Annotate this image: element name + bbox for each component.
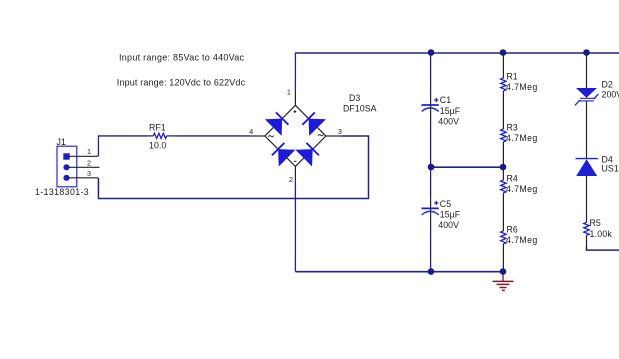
wire bridge pin2 down bbox=[294, 181, 296, 271]
svg-text:R3: R3 bbox=[507, 123, 518, 133]
bridge diode top-left bbox=[265, 112, 289, 136]
svg-text:D3: D3 bbox=[349, 93, 360, 103]
C column wire C1 to middle rail bbox=[430, 122, 432, 167]
svg-text:1.00k: 1.00k bbox=[590, 229, 613, 239]
resistor R5 bbox=[584, 218, 613, 239]
wire bridge pin1 to top rail bbox=[294, 53, 296, 91]
J1 pin 2 number bbox=[87, 158, 91, 167]
svg-text:Input range: 85Vac to 440Vac: Input range: 85Vac to 440Vac bbox=[119, 53, 245, 63]
svg-text:R5: R5 bbox=[590, 218, 601, 228]
capacitor C1 pin leads bbox=[430, 95, 432, 122]
svg-text:3: 3 bbox=[87, 169, 91, 178]
resistor R3 bbox=[501, 123, 538, 144]
D column lead D4 to R5 bbox=[586, 176, 588, 222]
bridge D3 pin 3 lead bbox=[326, 135, 341, 137]
svg-text:15µF: 15µF bbox=[440, 210, 461, 220]
capacitor C5 pin leads bbox=[430, 198, 432, 225]
junction dot middle rail R column bbox=[500, 164, 507, 171]
middle rail wire bbox=[431, 166, 503, 168]
svg-text:C5: C5 bbox=[440, 199, 451, 209]
junction dot middle rail C column bbox=[428, 164, 435, 171]
svg-text:4.7Meg: 4.7Meg bbox=[506, 235, 538, 245]
zener diode D2 bbox=[575, 79, 619, 105]
junction dot top rail R column bbox=[500, 49, 507, 56]
ground symbol bbox=[493, 272, 514, 291]
svg-text:2: 2 bbox=[289, 175, 293, 184]
R column lead R4-R6 bbox=[502, 193, 504, 231]
C column wire top bbox=[430, 53, 432, 95]
svg-text:1-1318301-3: 1-1318301-3 bbox=[35, 187, 89, 197]
svg-text:200V: 200V bbox=[602, 89, 619, 99]
svg-text:2: 2 bbox=[87, 158, 91, 167]
J1 pin 1 number bbox=[87, 147, 91, 156]
top rail wire bbox=[295, 52, 619, 54]
svg-text:C1: C1 bbox=[440, 95, 451, 105]
bridge diode top-right bbox=[302, 112, 326, 136]
svg-text:10.0: 10.0 bbox=[149, 141, 166, 151]
bridge rectifier D3 body bbox=[265, 105, 326, 166]
bridge D3 pin 1 lead bbox=[294, 91, 296, 106]
svg-text:1: 1 bbox=[287, 87, 291, 96]
resistor R1 bbox=[501, 72, 538, 93]
R column lead R1-R3 bbox=[502, 91, 504, 129]
junction dot bottom rail C column bbox=[428, 268, 435, 275]
svg-text:4.7Meg: 4.7Meg bbox=[506, 133, 538, 143]
capacitor C1 bbox=[422, 95, 461, 126]
R5 lead to corner bbox=[586, 235, 588, 246]
svg-text:R1: R1 bbox=[507, 72, 518, 82]
C column wire middle to C5 bbox=[430, 167, 432, 198]
resistor R6 bbox=[501, 225, 538, 246]
capacitor C5 bbox=[422, 199, 461, 230]
junction dot top rail D column bbox=[583, 49, 590, 56]
R column lead top bbox=[502, 53, 504, 78]
bridge D3 pin 1 number bbox=[287, 87, 291, 96]
wire J1 to RF1 bbox=[98, 135, 147, 137]
note input range line 1 bbox=[119, 53, 245, 63]
svg-text:R6: R6 bbox=[507, 225, 518, 235]
bridge D3 pin 3 number bbox=[338, 127, 342, 136]
svg-text:US1M: US1M bbox=[602, 163, 619, 173]
diode D4 bbox=[576, 154, 619, 176]
resistor RF1 bbox=[147, 123, 175, 151]
J1 pin 1 lead bbox=[67, 155, 98, 157]
junction dot bottom rail R column ground bbox=[500, 268, 507, 275]
D column lead D2 to D4 bbox=[586, 101, 588, 159]
svg-text:4.7Meg: 4.7Meg bbox=[506, 82, 538, 92]
resistor R4 bbox=[501, 174, 538, 195]
svg-text:400V: 400V bbox=[438, 220, 459, 230]
junction dot top rail C column bbox=[428, 49, 435, 56]
bridge D3 pin 2 lead bbox=[294, 166, 296, 181]
bridge diode bottom-left bbox=[272, 143, 296, 167]
bridge D3 designator bbox=[343, 93, 377, 113]
svg-text:J1: J1 bbox=[57, 137, 66, 147]
svg-text:DF10SA: DF10SA bbox=[343, 103, 377, 113]
wire R5 to right edge bbox=[587, 246, 619, 250]
J1 pin 2 lead stub bbox=[67, 166, 100, 168]
note input range line 2 bbox=[117, 78, 246, 88]
bottom rail wire bbox=[295, 271, 503, 273]
J1 pin 3 number bbox=[87, 169, 91, 178]
svg-text:4: 4 bbox=[249, 127, 253, 136]
svg-text:R4: R4 bbox=[507, 174, 518, 184]
J1 pin 3 lead bbox=[67, 177, 98, 179]
R column lead R6 to bottom rail bbox=[502, 244, 504, 272]
wire J1 pin1 up bbox=[97, 136, 99, 156]
wire J1 pin3 down and right (bottom loop) bbox=[98, 136, 368, 199]
svg-text:1: 1 bbox=[87, 147, 91, 156]
C column wire C5 to bottom rail bbox=[430, 225, 432, 272]
R column lead R3 to middle rail bbox=[502, 142, 504, 167]
svg-text:Input range: 120Vdc to 622Vdc: Input range: 120Vdc to 622Vdc bbox=[117, 78, 246, 88]
bridge D3 pin 4 lead bbox=[250, 135, 265, 137]
svg-text:RF1: RF1 bbox=[149, 123, 166, 133]
bridge diode bottom-right bbox=[295, 143, 319, 167]
connector J1 bbox=[35, 137, 89, 197]
wire RF1 to bridge pin 4 bbox=[175, 135, 250, 137]
svg-text:D2: D2 bbox=[602, 79, 613, 89]
D column lead top rail to D2 bbox=[586, 53, 588, 88]
svg-text:4.7Meg: 4.7Meg bbox=[506, 184, 538, 194]
svg-text:400V: 400V bbox=[438, 116, 459, 126]
R column lead middle rail to R4 bbox=[502, 167, 504, 180]
svg-text:15µF: 15µF bbox=[440, 106, 461, 116]
bridge D3 pin 4 number bbox=[249, 127, 253, 136]
svg-text:3: 3 bbox=[338, 127, 342, 136]
bridge D3 pin 2 number bbox=[289, 175, 293, 184]
